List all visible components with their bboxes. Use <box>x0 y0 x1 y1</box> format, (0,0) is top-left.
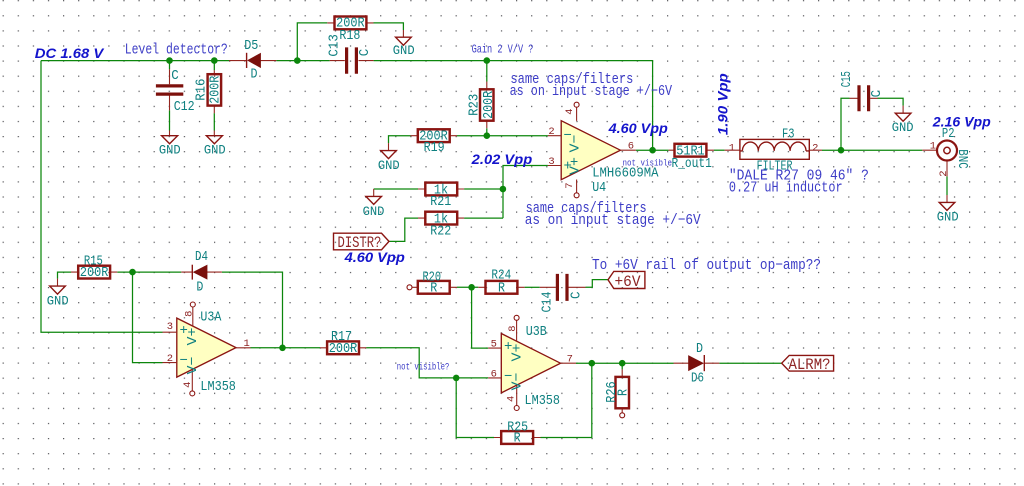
wire R16 top stub <box>213 61 215 71</box>
svg-text:3: 3 <box>548 156 554 168</box>
svg-text:LM358: LM358 <box>525 393 561 409</box>
svg-text:not visible?: not visible? <box>397 361 450 373</box>
diode D6 <box>674 355 720 371</box>
svg-text:GND: GND <box>378 159 400 173</box>
svg-text:1: 1 <box>729 143 735 155</box>
wire U3B output row <box>576 362 674 364</box>
svg-text:D5: D5 <box>244 38 258 54</box>
svg-text:4.60 Vpp: 4.60 Vpp <box>344 250 405 265</box>
svg-text:6: 6 <box>491 369 497 381</box>
junction J4 <box>484 57 491 64</box>
capacitor C13 <box>330 47 374 73</box>
svg-text:D: D <box>696 341 703 357</box>
svg-text:+6V: +6V <box>615 273 642 291</box>
ground under R19 <box>381 143 397 159</box>
svg-text:1.90 Vpp: 1.90 Vpp <box>715 73 730 135</box>
svg-text:Gain 2 V/V ?: Gain 2 V/V ? <box>472 43 534 57</box>
svg-text:U3B: U3B <box>526 324 547 340</box>
resistor R26 <box>616 369 630 417</box>
capacitor C12 <box>156 69 183 110</box>
svg-text:V−: V− <box>185 357 201 375</box>
svg-text:1: 1 <box>930 140 936 152</box>
svg-text:DC 1.68 V: DC 1.68 V <box>35 46 105 61</box>
svg-text:GND: GND <box>47 295 69 309</box>
svg-text:GND: GND <box>937 210 959 224</box>
wire R22 left to DISTR tag <box>389 218 418 241</box>
resistor R17 <box>320 341 366 354</box>
ground under R18 <box>396 30 412 45</box>
wire BNC pin2 to GND <box>946 176 948 195</box>
wire R15 right to D4 <box>117 271 181 273</box>
wire feedback node down to U3A pin 2 <box>133 272 163 363</box>
svg-text:D6: D6 <box>691 371 704 387</box>
wire C13 right to feedback corner <box>374 61 653 151</box>
resistor R23 <box>480 82 494 129</box>
junction J5 <box>484 132 491 139</box>
svg-text:F3: F3 <box>782 127 795 143</box>
wire main top net y=60.6 <box>41 60 229 62</box>
wire R21 left to GND <box>374 188 418 190</box>
svg-text:8: 8 <box>507 325 519 331</box>
wire C15 right to GND corner <box>878 98 904 105</box>
wire R20 R24 row <box>457 286 478 288</box>
wire C12 top stub <box>169 61 171 70</box>
svg-text:R: R <box>514 431 521 447</box>
global label DISTR? <box>334 233 390 250</box>
svg-text:R19: R19 <box>424 140 445 156</box>
junction J12 <box>468 284 475 291</box>
svg-text:V−: V− <box>568 135 584 153</box>
wire R21 right <box>464 188 503 190</box>
svg-text:R: R <box>498 280 505 296</box>
junction J9 <box>129 269 136 276</box>
svg-text:2: 2 <box>938 170 950 176</box>
inductor F3 FILTER <box>725 139 822 159</box>
wire R15 left to GND corner <box>58 272 72 279</box>
junction J14 <box>619 360 626 367</box>
svg-text:not visible: not visible <box>623 157 673 168</box>
junction J10 <box>279 345 286 352</box>
junction J1 <box>166 57 173 64</box>
capacitor C14 <box>540 274 586 301</box>
svg-text:V+: V+ <box>568 157 584 175</box>
wire C12 bottom to GND <box>169 110 171 130</box>
svg-text:R18: R18 <box>339 28 360 44</box>
op-amp U3B <box>488 315 576 410</box>
wire R25 right up to output <box>541 363 592 437</box>
svg-text:D: D <box>196 279 203 295</box>
svg-text:C12: C12 <box>174 99 195 115</box>
resistor R22 <box>418 212 464 225</box>
svg-text:LM358: LM358 <box>200 379 236 395</box>
svg-text:V+: V+ <box>510 344 526 362</box>
svg-text:R21: R21 <box>430 194 451 210</box>
wire 51R1 to F3 <box>714 149 725 151</box>
wire up to R18 <box>297 23 327 61</box>
ground under C12 <box>162 131 178 144</box>
svg-text:0.27 uH inductor: 0.27 uH inductor <box>729 180 843 197</box>
wire U4 output to 51R1 <box>636 149 669 151</box>
svg-text:4: 4 <box>506 396 518 402</box>
svg-text:4.60 Vpp: 4.60 Vpp <box>608 121 668 136</box>
svg-text:8: 8 <box>184 311 196 317</box>
svg-text:V+: V+ <box>185 328 201 346</box>
svg-text:D: D <box>251 67 258 83</box>
wire R22 right <box>464 217 503 219</box>
svg-text:2.16 Vpp: 2.16 Vpp <box>932 115 991 130</box>
resistor R15 <box>71 266 117 279</box>
resistor R20 <box>407 281 457 294</box>
svg-text:2.02 Vpp: 2.02 Vpp <box>471 152 533 167</box>
wire C15 branch up from junction <box>841 98 850 150</box>
svg-text:2: 2 <box>548 126 554 138</box>
wire D5 cathode to C13 <box>276 60 329 62</box>
wire C14 to +6V tag <box>586 280 609 288</box>
capacitor C15 <box>850 85 878 111</box>
junction J2 <box>211 57 218 64</box>
resistor R_out1 51R1 <box>669 144 714 157</box>
svg-text:BNC: BNC <box>954 149 970 169</box>
svg-text:2: 2 <box>167 353 173 365</box>
wire junction down to U3B pin 5 <box>472 287 489 348</box>
svg-text:7: 7 <box>564 182 576 188</box>
svg-text:U4: U4 <box>592 180 606 196</box>
svg-text:as on input stage +/−6V: as on input stage +/−6V <box>510 83 672 100</box>
op-amp U3A <box>163 302 251 396</box>
svg-text:C14: C14 <box>540 292 556 313</box>
wire R19 right to U4 pin 2 <box>457 135 548 137</box>
svg-text:4: 4 <box>564 108 576 114</box>
wire R17 to U3B pin 6 <box>366 348 488 378</box>
svg-text:GND: GND <box>204 144 226 158</box>
svg-text:GND: GND <box>363 205 385 219</box>
ground right of C15 <box>895 106 911 122</box>
svg-text:200R: 200R <box>80 265 109 281</box>
wire U3A output to R17 <box>251 347 321 349</box>
resistor R24 <box>478 281 524 294</box>
diode D4 <box>181 265 222 280</box>
resistor R16 <box>208 70 222 113</box>
svg-text:5: 5 <box>491 339 497 351</box>
svg-text:R22: R22 <box>430 223 451 239</box>
diode D5 <box>229 53 276 68</box>
svg-text:C: C <box>357 49 373 57</box>
svg-text:P2: P2 <box>942 126 955 142</box>
svg-text:2: 2 <box>812 142 818 154</box>
svg-text:Level detector?: Level detector? <box>125 42 228 59</box>
junction J11 <box>453 375 460 382</box>
ground under R15 <box>50 279 66 295</box>
svg-text:51R1: 51R1 <box>676 144 705 160</box>
wire R16 bottom to GND <box>213 113 215 130</box>
BNC connector P2 <box>922 141 957 177</box>
wire R26 top stub <box>621 363 623 369</box>
svg-text:To +6V rail of output op−amp??: To +6V rail of output op−amp?? <box>592 257 821 274</box>
wire R23 top stub <box>486 61 488 82</box>
ground under R16 <box>206 131 222 144</box>
svg-text:C: C <box>569 292 585 300</box>
svg-text:4: 4 <box>182 382 194 388</box>
svg-text:C13: C13 <box>326 34 342 56</box>
wire R24 to C14 <box>525 286 540 288</box>
svg-text:GND: GND <box>159 144 181 158</box>
svg-text:6: 6 <box>628 141 634 153</box>
svg-text:D4: D4 <box>195 249 208 265</box>
wire R18 right to GND corner <box>374 23 404 30</box>
svg-text:200R: 200R <box>329 341 358 357</box>
svg-text:C15: C15 <box>839 71 855 87</box>
wire D4 to U3A output junction <box>222 272 283 348</box>
global label ALRM? <box>782 355 834 371</box>
ground under R21 <box>366 189 382 205</box>
resistor R21 <box>418 183 464 196</box>
svg-text:C: C <box>869 90 885 98</box>
wire R19 left to GND <box>389 136 411 143</box>
junction J3 <box>294 57 301 64</box>
resistor R25 <box>494 431 541 444</box>
resistor R19 <box>411 129 458 142</box>
svg-text:ALRM?: ALRM? <box>789 356 831 374</box>
svg-text:200R: 200R <box>481 90 497 118</box>
wire U4 pin 3 branch <box>503 166 548 219</box>
svg-text:1: 1 <box>244 338 250 350</box>
wire junction down to R25 <box>456 378 494 438</box>
svg-text:3: 3 <box>167 321 173 333</box>
svg-text:GND: GND <box>393 44 415 58</box>
power tag +6V <box>608 271 645 288</box>
junction J6 <box>500 186 507 193</box>
junction J8 <box>838 147 845 154</box>
wire left vertical from DC node down to U3A pin 3 <box>41 61 163 333</box>
op-amp U4 <box>548 102 636 198</box>
wire F3 to BNC <box>822 149 922 151</box>
svg-text:R: R <box>616 389 632 396</box>
junction J7 <box>649 147 656 154</box>
svg-text:R: R <box>430 280 437 296</box>
wire R23 bottom stub <box>486 128 488 135</box>
resistor R18 <box>327 17 373 30</box>
svg-text:C: C <box>171 68 179 84</box>
junction J13 <box>589 360 596 367</box>
svg-text:GND: GND <box>892 121 914 135</box>
svg-text:200R: 200R <box>208 75 224 103</box>
svg-text:7: 7 <box>567 354 573 366</box>
wire D6 to ALRM tag <box>719 362 781 364</box>
svg-text:as on input stage +/−6V: as on input stage +/−6V <box>525 212 701 229</box>
svg-text:U3A: U3A <box>200 309 221 325</box>
ground under BNC P2 <box>939 195 955 210</box>
svg-text:V−: V− <box>510 373 526 391</box>
